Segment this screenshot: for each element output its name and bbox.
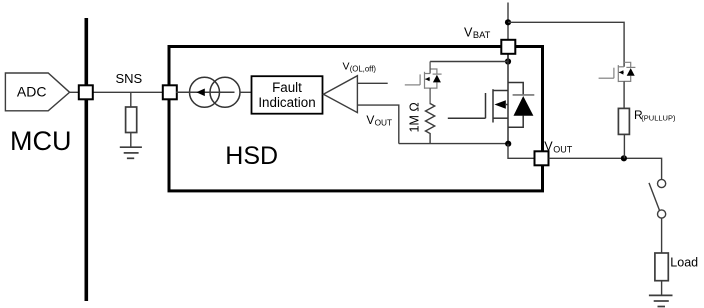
wire source to VOUT pin <box>508 144 535 159</box>
ground (SNS filter) <box>120 147 142 158</box>
node internal drain junction dot <box>505 58 511 64</box>
wire SNS pin to current source <box>176 91 190 93</box>
node pullup junction dot <box>621 155 627 161</box>
label V(OL,off) <box>343 61 377 74</box>
svg-text:SNS: SNS <box>116 71 143 86</box>
svg-text:V: V <box>366 113 374 127</box>
svg-text:OUT: OUT <box>553 144 573 154</box>
svg-text:Fault: Fault <box>272 80 302 95</box>
svg-text:1M Ω: 1M Ω <box>407 102 421 132</box>
svg-text:Load: Load <box>670 255 698 269</box>
wire current source to fault box <box>240 91 252 93</box>
svg-text:MCU: MCU <box>10 126 72 156</box>
svg-text:OUT: OUT <box>375 118 393 128</box>
current source (sense current mirror) <box>176 77 240 107</box>
svg-text:Indication: Indication <box>258 95 315 110</box>
switch S1 <box>649 179 666 218</box>
pin VOUT <box>535 151 549 165</box>
wire VOUT external net <box>549 158 662 179</box>
transistor Q3 (external pull-up FET) <box>599 62 636 108</box>
wire switch to load <box>661 218 663 253</box>
wire VBAT top stub <box>507 3 509 40</box>
wire V(OL,off) input stub <box>357 82 387 84</box>
ADC block <box>5 73 69 111</box>
node source junction dot <box>505 141 511 147</box>
wire drain rail to Q1 <box>430 61 508 63</box>
svg-text:V: V <box>343 61 350 73</box>
transistor Q1 (internal small FET with body diode) <box>405 62 442 105</box>
wire pullup resistor to VOUT net <box>623 134 625 158</box>
wire SNS resistor tap <box>130 92 132 107</box>
pin VBAT <box>501 40 515 54</box>
wire resistor to ground <box>130 133 132 148</box>
comparator triangle U1 <box>323 76 357 113</box>
HSD box <box>169 47 543 191</box>
label VBAT <box>464 25 491 40</box>
svg-text:HSD: HSD <box>225 142 278 170</box>
MCU boundary line <box>85 18 89 301</box>
wire VOUT sense input <box>357 105 398 144</box>
svg-text:V: V <box>464 25 473 39</box>
wire VBAT pin to drain rail <box>507 54 509 61</box>
pin MCU ADC <box>79 85 93 99</box>
resistor R(PULLUP) <box>618 108 629 134</box>
label VOUT (comparator input) <box>366 113 392 128</box>
svg-text:V: V <box>544 140 553 154</box>
svg-text:(OL,off): (OL,off) <box>350 64 377 73</box>
wire ADC to MCU pin <box>70 91 79 93</box>
label R(PULLUP) <box>634 108 676 123</box>
wire SNS net <box>91 91 163 93</box>
svg-text:(PULLUP): (PULLUP) <box>641 113 676 122</box>
wire internal VOUT rail <box>399 143 508 145</box>
pin SNS <box>163 85 177 99</box>
label VOUT (pin) <box>544 140 572 155</box>
ground (load) <box>649 295 673 306</box>
resistor Load <box>655 253 668 281</box>
svg-text:BAT: BAT <box>473 30 491 40</box>
resistor 1M <box>426 104 435 144</box>
wire VBAT to external FET <box>508 22 624 67</box>
fault indication box <box>252 76 323 114</box>
svg-text:ADC: ADC <box>17 83 47 99</box>
node VBAT junction dot <box>505 19 511 25</box>
resistor R-SNS <box>126 107 137 133</box>
transistor Q2 (power MOSFET) <box>448 54 535 143</box>
wire load to ground <box>661 281 663 296</box>
